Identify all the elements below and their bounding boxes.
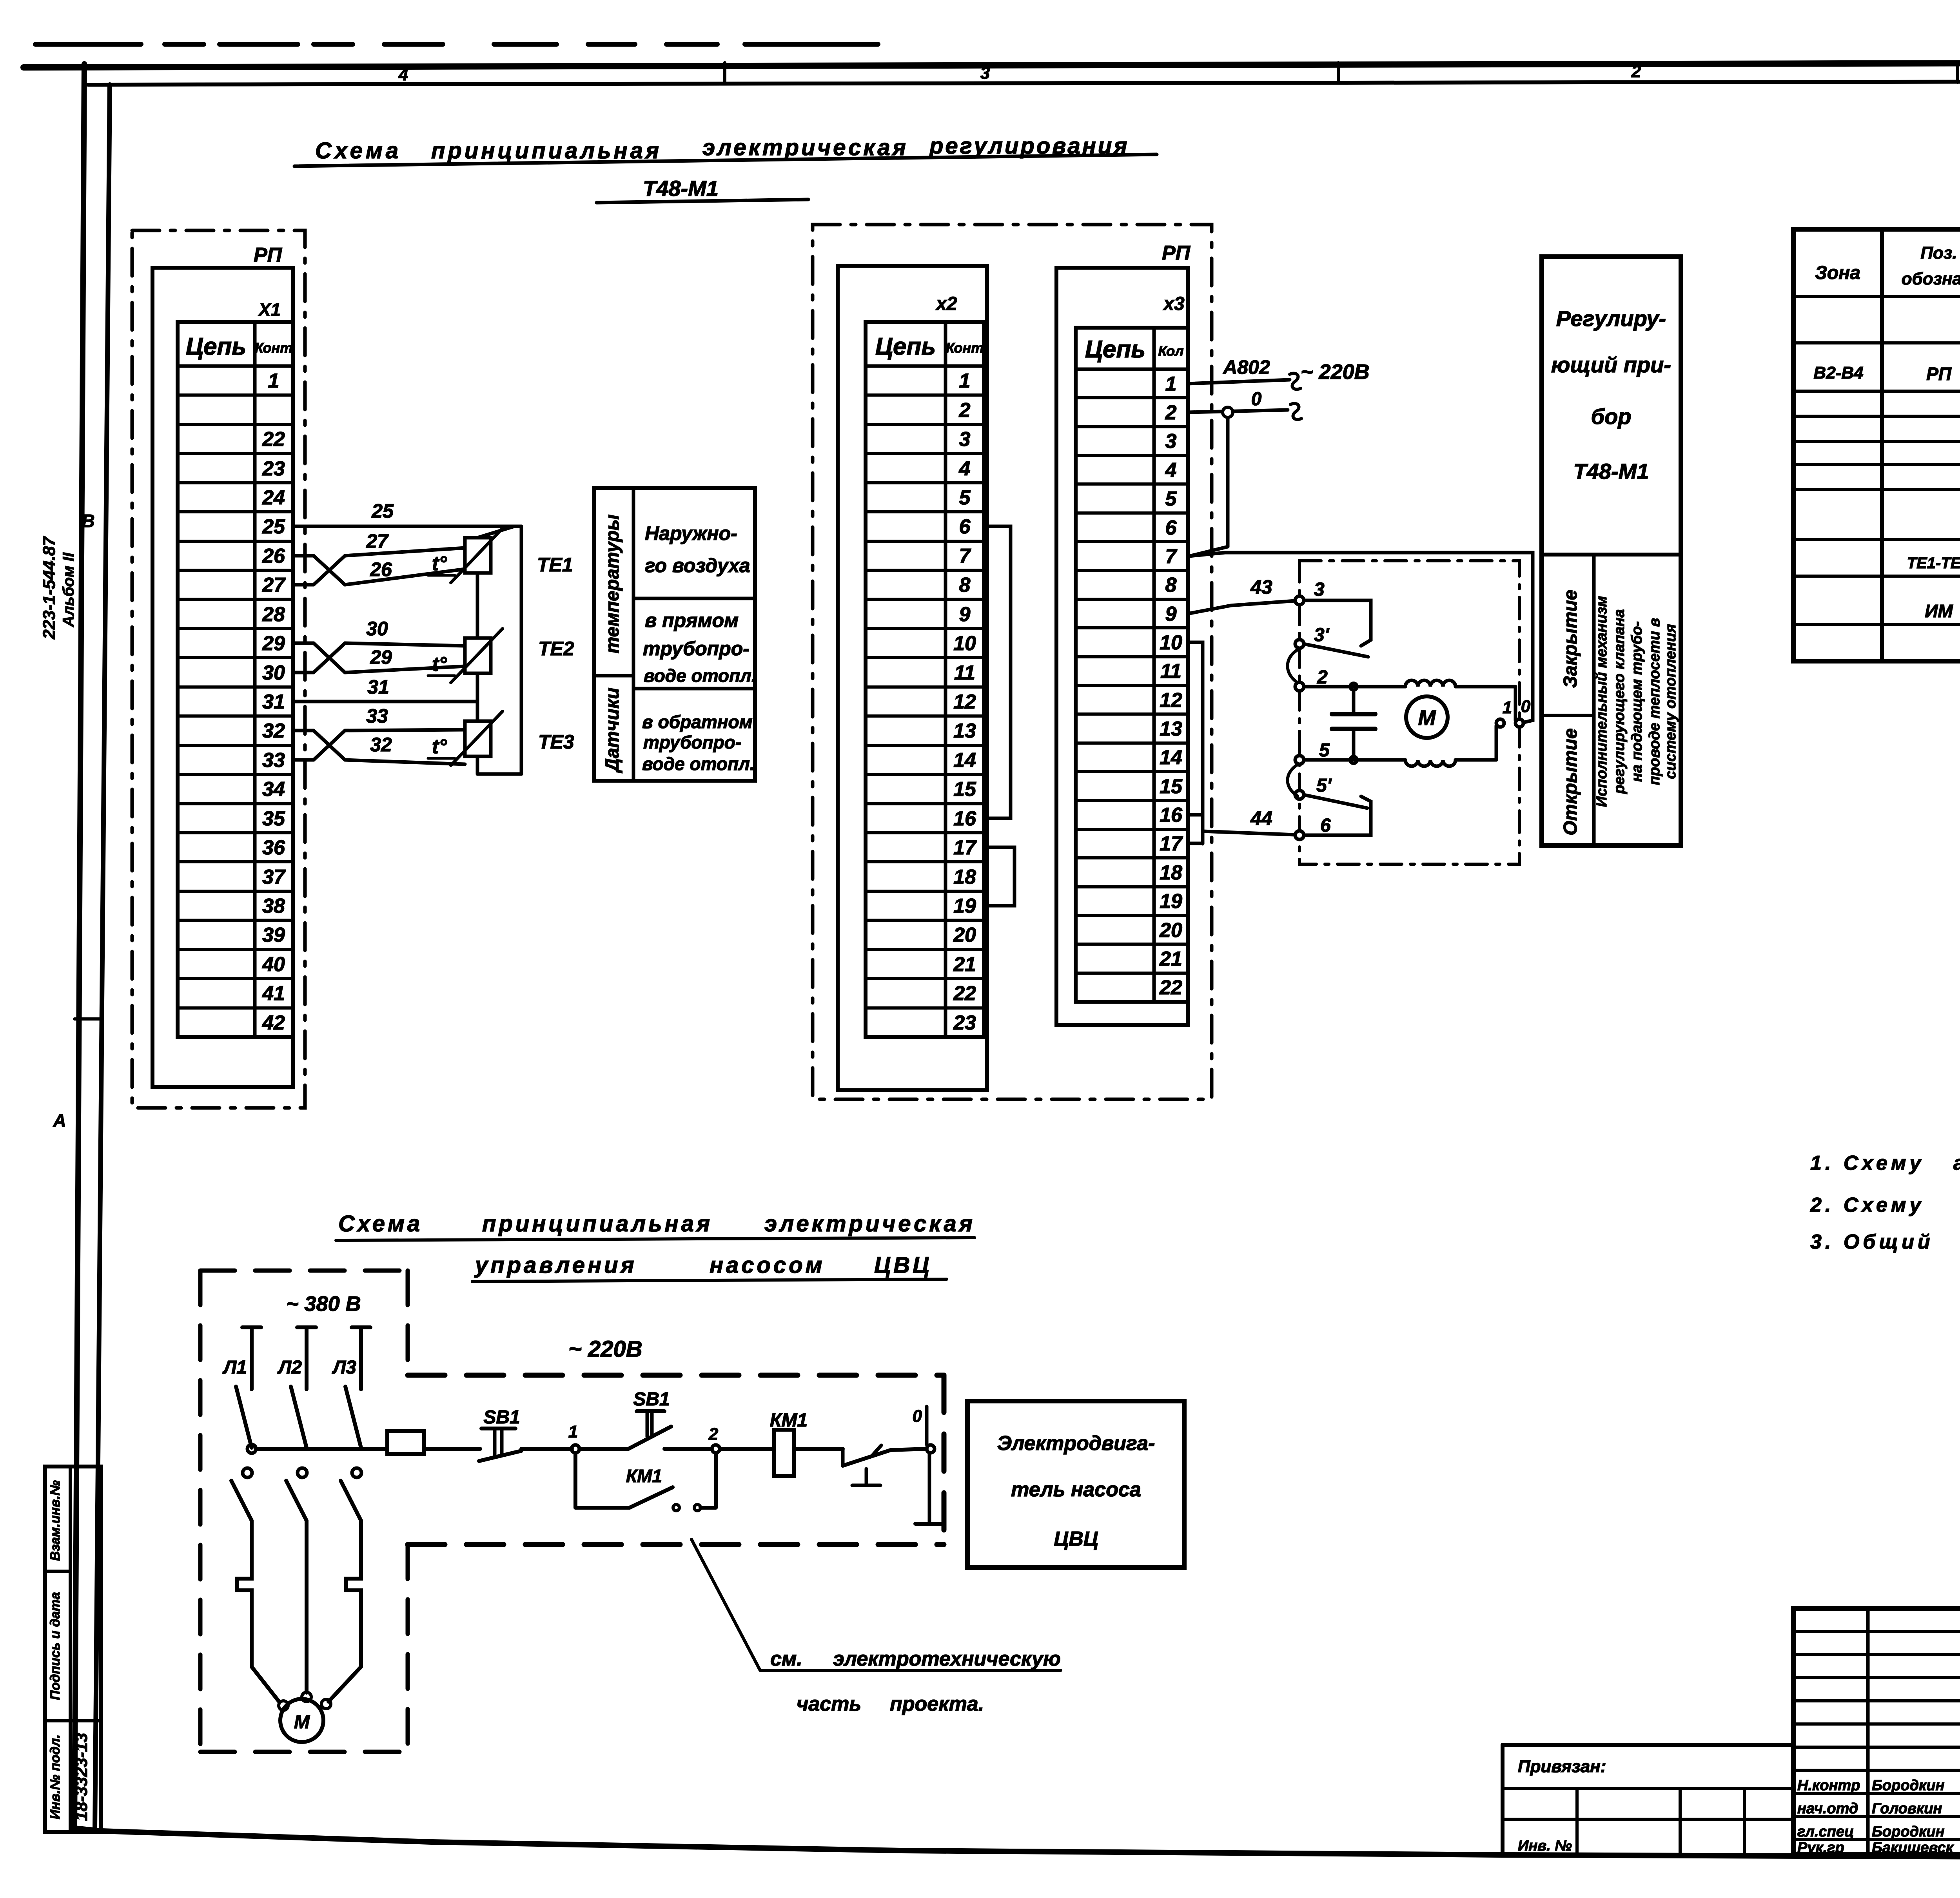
svg-text:26: 26 [370, 558, 392, 580]
svg-text:насосом: насосом [710, 1253, 825, 1278]
svg-text:Л3: Л3 [332, 1357, 356, 1378]
svg-text:Кол: Кол [1158, 343, 1183, 359]
svg-text:трубопро-: трубопро- [643, 638, 750, 660]
svg-text:40: 40 [262, 953, 285, 976]
svg-text:ИМ: ИМ [1925, 601, 1953, 621]
svg-text:3: 3 [1314, 579, 1325, 600]
svg-text:4: 4 [959, 457, 971, 480]
svg-text:38: 38 [262, 895, 285, 917]
svg-text:2: 2 [1165, 401, 1177, 424]
svg-text:t°: t° [432, 653, 447, 676]
svg-text:М: М [294, 1712, 310, 1733]
svg-text:19: 19 [1160, 890, 1182, 913]
svg-text:ТЕ3: ТЕ3 [538, 731, 574, 753]
svg-text:29: 29 [262, 632, 285, 655]
svg-text:управления: управления [474, 1253, 637, 1278]
svg-text:9: 9 [959, 603, 971, 626]
svg-text:18: 18 [1160, 861, 1182, 884]
svg-text:34: 34 [262, 778, 285, 801]
svg-text:23: 23 [953, 1012, 976, 1034]
svg-text:0: 0 [1521, 697, 1531, 716]
svg-text:8: 8 [959, 574, 971, 596]
svg-text:систему отопления: систему отопления [1662, 624, 1679, 779]
svg-text:2: 2 [1631, 62, 1641, 81]
svg-text:14: 14 [953, 749, 976, 772]
svg-text:39: 39 [262, 924, 285, 946]
svg-text:1: 1 [268, 370, 279, 392]
svg-text:В2-В4: В2-В4 [1813, 363, 1863, 383]
svg-text:0: 0 [1251, 389, 1262, 410]
svg-text:Н.контр: Н.контр [1797, 1777, 1860, 1794]
svg-text:Цепь: Цепь [1085, 336, 1145, 363]
svg-text:13: 13 [953, 720, 976, 742]
svg-text:36: 36 [262, 836, 285, 859]
svg-text:15: 15 [953, 778, 976, 801]
svg-text:42: 42 [262, 1012, 285, 1034]
svg-text:в прямом: в прямом [645, 609, 739, 631]
svg-text:в обратном: в обратном [642, 712, 753, 732]
svg-text:27: 27 [262, 574, 286, 596]
svg-text:Схема: Схема [315, 138, 401, 163]
svg-text:Наружно-: Наружно- [645, 522, 737, 544]
svg-text:Л1: Л1 [222, 1357, 247, 1378]
svg-text:го воздуха: го воздуха [645, 555, 750, 576]
svg-text:13: 13 [1160, 718, 1182, 740]
svg-text:22: 22 [953, 982, 976, 1005]
svg-text:1: 1 [959, 370, 971, 392]
svg-text:3: 3 [1165, 430, 1177, 453]
svg-text:проекта.: проекта. [890, 1693, 984, 1715]
svg-text:28: 28 [262, 603, 285, 626]
svg-text:11: 11 [954, 662, 975, 684]
svg-text:12: 12 [953, 691, 976, 713]
svg-text:Т48-М1: Т48-М1 [1573, 459, 1649, 484]
svg-text:4: 4 [1165, 459, 1177, 482]
svg-text:КМ1: КМ1 [626, 1466, 662, 1486]
svg-text:17: 17 [953, 836, 977, 859]
svg-text:Датчики: Датчики [602, 688, 623, 774]
svg-text:1: 1 [568, 1422, 578, 1441]
svg-text:33: 33 [366, 705, 388, 727]
svg-text:Бородкин: Бородкин [1872, 1777, 1945, 1794]
svg-text:воде отопл.: воде отопл. [644, 665, 757, 686]
svg-text:37: 37 [262, 866, 286, 888]
svg-text:24: 24 [262, 486, 285, 509]
svg-text:32: 32 [370, 734, 392, 756]
svg-text:35: 35 [262, 807, 285, 830]
svg-text:5: 5 [1319, 740, 1330, 761]
svg-text:Инв.№ подл.: Инв.№ подл. [48, 1735, 63, 1820]
svg-text:15: 15 [1160, 775, 1183, 798]
svg-text:Бородкин: Бородкин [1872, 1824, 1945, 1840]
svg-text:Конт: Конт [946, 340, 984, 356]
svg-text:1: 1 [1503, 698, 1512, 717]
svg-text:х2: х2 [935, 294, 957, 314]
svg-text:принципиальная: принципиальная [482, 1211, 713, 1236]
svg-text:21: 21 [953, 953, 976, 976]
svg-text:t°: t° [432, 552, 447, 575]
svg-text:8: 8 [1165, 574, 1177, 596]
svg-text:5: 5 [1165, 488, 1177, 510]
svg-text:32: 32 [262, 720, 285, 742]
svg-text:Открытие: Открытие [1560, 728, 1581, 835]
svg-text:часть: часть [797, 1693, 861, 1715]
svg-text:РП: РП [1926, 364, 1952, 384]
svg-text:0: 0 [913, 1407, 922, 1426]
svg-text:бор: бор [1591, 404, 1631, 429]
svg-text:гл.спец: гл.спец [1797, 1824, 1854, 1840]
svg-text:РП: РП [254, 244, 283, 266]
svg-text:Зона: Зона [1815, 263, 1860, 283]
svg-text:Альбом II: Альбом II [60, 552, 77, 627]
svg-text:см.: см. [770, 1648, 802, 1670]
svg-text:3: 3 [980, 63, 990, 83]
svg-text:27: 27 [366, 530, 389, 552]
svg-text:ТЕ2: ТЕ2 [538, 638, 574, 660]
svg-text:29: 29 [370, 646, 392, 668]
svg-text:7: 7 [1165, 545, 1178, 568]
svg-text:Инв. №: Инв. № [1518, 1838, 1572, 1854]
svg-text:тель насоса: тель насоса [1011, 1478, 1141, 1501]
svg-text:21: 21 [1159, 948, 1182, 970]
svg-text:223-1-544.87: 223-1-544.87 [40, 536, 59, 640]
svg-text:30: 30 [366, 618, 388, 640]
svg-text:Поз.: Поз. [1920, 243, 1957, 263]
svg-text:автоматизации: автоматизации [1953, 1152, 1960, 1175]
svg-text:М: М [1418, 706, 1436, 730]
svg-text:х3: х3 [1162, 294, 1185, 314]
svg-text:25: 25 [262, 515, 285, 538]
svg-text:5': 5' [1316, 775, 1332, 796]
svg-text:Цепь: Цепь [875, 333, 936, 360]
svg-text:11: 11 [1160, 660, 1181, 683]
svg-text:19: 19 [953, 895, 976, 917]
svg-text:SB1: SB1 [633, 1389, 670, 1410]
svg-text:14: 14 [1160, 746, 1182, 769]
svg-text:31: 31 [367, 676, 389, 698]
svg-text:ЦВЦ: ЦВЦ [874, 1253, 932, 1278]
svg-text:3': 3' [1314, 625, 1330, 645]
svg-text:Х1: Х1 [258, 299, 281, 320]
svg-text:А802: А802 [1222, 356, 1270, 378]
svg-text:SB1: SB1 [483, 1407, 520, 1428]
svg-text:Бакишевск: Бакишевск [1872, 1840, 1954, 1856]
svg-text:РП: РП [1162, 242, 1191, 265]
svg-text:Головкин: Головкин [1872, 1800, 1942, 1817]
svg-text:7: 7 [959, 545, 971, 567]
svg-text:Привязан:: Привязан: [1518, 1757, 1606, 1776]
svg-text:Цепь: Цепь [186, 333, 246, 360]
svg-text:3: 3 [959, 428, 971, 451]
svg-text:электротехническую: электротехническую [833, 1648, 1061, 1670]
svg-text:В: В [82, 511, 94, 531]
svg-text:30: 30 [262, 662, 285, 684]
svg-text:22: 22 [1159, 976, 1182, 999]
svg-text:4: 4 [398, 65, 408, 84]
svg-text:Регулиру-: Регулиру- [1556, 306, 1666, 331]
svg-text:ЦВЦ: ЦВЦ [1054, 1528, 1098, 1550]
svg-text:Исполнительный механизм: Исполнительный механизм [1593, 596, 1610, 807]
svg-text:41: 41 [262, 982, 285, 1005]
svg-text:26: 26 [262, 545, 285, 567]
svg-text:10: 10 [1160, 631, 1182, 654]
svg-text:43: 43 [1250, 576, 1272, 598]
svg-text:Конт: Конт [255, 340, 293, 356]
svg-text:проводе теплосети в: проводе теплосети в [1646, 618, 1663, 785]
svg-text:44: 44 [1250, 807, 1272, 829]
svg-text:Взам.инв.№: Взам.инв.№ [48, 1480, 63, 1561]
svg-text:Т48-М1: Т48-М1 [643, 176, 719, 201]
svg-text:трубопро-: трубопро- [643, 732, 741, 752]
svg-text:9: 9 [1165, 603, 1177, 625]
svg-text:6: 6 [959, 515, 971, 538]
svg-text:2. Схему: 2. Схему [1810, 1194, 1924, 1216]
svg-text:1: 1 [1165, 373, 1177, 395]
svg-text:Подпись и дата: Подпись и дата [48, 1592, 63, 1700]
svg-text:~ 220В: ~ 220В [1301, 360, 1370, 384]
svg-text:на подающем трубо-: на подающем трубо- [1629, 621, 1645, 782]
svg-text:Схема: Схема [338, 1211, 423, 1236]
svg-text:t°: t° [432, 735, 447, 758]
svg-text:~ 220В: ~ 220В [568, 1336, 642, 1362]
svg-text:6: 6 [1320, 815, 1331, 836]
svg-text:20: 20 [1159, 919, 1182, 942]
svg-text:регулирующего клапана: регулирующего клапана [1611, 609, 1628, 794]
svg-text:10: 10 [953, 632, 976, 655]
svg-text:1. Схему: 1. Схему [1810, 1152, 1924, 1175]
svg-text:17: 17 [1160, 832, 1183, 855]
svg-text:31: 31 [262, 691, 285, 713]
svg-text:20: 20 [953, 924, 976, 946]
svg-text:~ 380 В: ~ 380 В [286, 1292, 361, 1316]
svg-text:18: 18 [953, 866, 976, 888]
svg-text:А: А [53, 1110, 66, 1131]
svg-text:2: 2 [708, 1425, 719, 1444]
svg-text:6: 6 [1165, 517, 1177, 539]
svg-text:18-3323-13: 18-3323-13 [72, 1733, 91, 1821]
svg-text:25: 25 [371, 500, 394, 522]
svg-text:16: 16 [953, 807, 976, 830]
svg-text:12: 12 [1160, 689, 1182, 712]
svg-text:23: 23 [262, 457, 285, 480]
svg-text:ющий при-: ющий при- [1551, 352, 1671, 377]
svg-text:принципиальная: принципиальная [431, 138, 662, 163]
svg-text:ТЕ1-ТЕЗ: ТЕ1-ТЕЗ [1907, 555, 1960, 572]
svg-text:3. Общий: 3. Общий [1810, 1231, 1934, 1253]
svg-text:электрическая: электрическая [764, 1211, 975, 1236]
svg-text:нач.отд: нач.отд [1797, 1800, 1858, 1817]
svg-text:2: 2 [959, 399, 971, 422]
svg-text:2: 2 [1317, 667, 1328, 688]
svg-text:16: 16 [1160, 804, 1183, 827]
svg-text:обознач.: обознач. [1902, 269, 1960, 288]
svg-text:5: 5 [959, 486, 971, 509]
svg-text:33: 33 [262, 749, 285, 772]
svg-text:температуры: температуры [602, 515, 623, 654]
svg-text:воде отопл.: воде отопл. [642, 754, 755, 774]
svg-text:22: 22 [262, 428, 285, 451]
svg-text:Закрытие: Закрытие [1560, 590, 1581, 688]
svg-text:Л2: Л2 [277, 1357, 302, 1378]
svg-text:Рук.гр: Рук.гр [1797, 1840, 1844, 1856]
svg-text:Электродвига-: Электродвига- [997, 1432, 1155, 1455]
svg-text:ТЕ1: ТЕ1 [537, 554, 573, 576]
